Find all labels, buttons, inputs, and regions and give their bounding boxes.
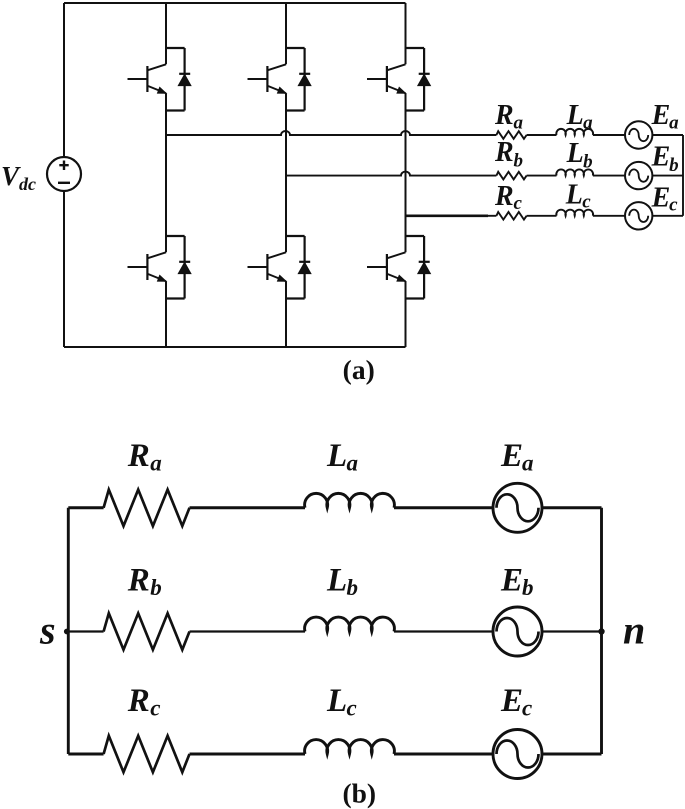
wire phase a left lead [68,506,103,509]
svg-text:b: b [522,575,534,600]
ac source Ec [625,202,652,229]
wire Lb to Eb [593,175,625,177]
svg-text:c: c [669,195,678,216]
svg-text:L: L [566,100,584,131]
ac source Eb [493,607,542,656]
IGBT transistor Q1 [128,64,167,93]
antiparallel diode D2 [166,236,191,299]
dc source Vdc [47,157,81,191]
wire phase c left lead [68,753,103,756]
svg-text:R: R [127,438,150,474]
wire Eb to right bus [542,630,602,632]
wire phase c to Rc [488,215,496,217]
svg-text:b: b [347,575,359,600]
wire La to Ea [394,506,493,509]
svg-text:E: E [500,683,523,719]
resistor Rc [496,212,526,220]
svg-text:V: V [1,161,21,191]
IGBT transistor Q6 [367,252,406,281]
svg-text:E: E [651,183,671,214]
svg-text:s: s [39,608,56,653]
IGBT transistor Q2 [128,252,167,281]
svg-text:E: E [651,142,671,173]
wire phase b output with crossover hop [286,172,496,176]
wire Ra to La [527,134,557,136]
svg-text:b: b [669,155,679,176]
svg-text:a: a [150,451,162,476]
inductor La [556,129,593,135]
wire Lb to Eb [394,630,493,632]
junction node n dot [598,628,604,634]
resistor Ra [104,490,190,526]
wire phase c output thick segment [406,214,489,217]
wire leg 1 vertical segments [165,3,167,347]
svg-text:n: n [623,608,645,653]
resistor Ra [496,131,526,139]
wire left bus s [67,508,70,754]
svg-text:b: b [583,152,593,173]
antiparallel diode D1 [166,48,191,111]
svg-text:R: R [494,137,514,168]
svg-text:L: L [565,180,583,211]
resistor Rc [104,736,190,772]
wire Ra to La [190,506,306,509]
wire Rc to Lc [527,215,557,217]
svg-text:L: L [326,438,347,474]
svg-text:c: c [347,696,357,721]
resistor Rb [104,613,190,649]
svg-text:L: L [326,683,347,719]
svg-text:(b): (b) [342,778,376,809]
wire bottom dc rail [64,346,406,348]
svg-text:c: c [582,192,591,213]
wire phase a output with crossover hops [166,131,496,135]
wire leg 2 vertical segments [285,3,287,347]
inductor Lb [556,169,593,175]
junction node s dot [64,629,70,635]
antiparallel diode D5 [406,48,431,111]
svg-text:E: E [651,100,671,131]
wire phase b left lead [68,630,103,632]
svg-text:b: b [514,151,524,172]
inductor Lb [305,617,395,631]
wire Eb to right bus [652,175,683,177]
svg-text:E: E [500,438,523,474]
wire left bus lower segment [63,191,65,347]
IGBT transistor Q3 [248,64,287,93]
svg-text:c: c [150,696,160,721]
wire right bus n [600,508,603,754]
svg-text:a: a [669,113,679,134]
ac source Ea [493,483,542,532]
svg-text:b: b [150,575,162,600]
IGBT transistor Q5 [367,64,406,93]
svg-text:a: a [522,451,534,476]
svg-text:a: a [514,113,524,134]
wire Ec to right bus [542,753,602,756]
svg-text:E: E [500,563,523,599]
wire right neutral bus [682,135,684,216]
antiparallel diode D4 [286,236,311,299]
ac source Ec [493,730,542,779]
antiparallel diode D6 [406,236,431,299]
wire Rb to Lb [527,175,557,177]
resistor Rb [496,172,526,180]
svg-text:L: L [566,138,584,169]
svg-text:R: R [494,100,514,131]
wire left bus upper segment [63,3,65,157]
inductor Lc [556,210,593,216]
wire Rc to Lc [190,753,306,756]
wire top dc rail [64,2,406,4]
svg-text:c: c [514,193,523,214]
wire Ec to right bus [652,215,683,217]
wire La to Ea [593,134,625,136]
ac source Ea [625,121,652,148]
antiparallel diode D3 [286,48,311,111]
wire Rb to Lb [190,630,306,632]
svg-text:(a): (a) [343,354,375,385]
wire leg 3 vertical segments [405,3,407,347]
svg-text:a: a [583,113,593,134]
ac source Eb [625,162,652,189]
inductor La [305,493,395,507]
wire Ea to right bus [542,506,602,509]
svg-text:c: c [522,696,532,721]
svg-text:dc: dc [19,174,36,194]
svg-text:R: R [127,563,150,599]
wire Ea to right bus [652,134,683,136]
svg-text:L: L [326,563,347,599]
svg-text:a: a [347,451,359,476]
wire Lc to Ec [593,215,625,217]
wire Lc to Ec [394,753,493,756]
inductor Lc [305,740,395,754]
svg-text:R: R [127,683,150,719]
svg-text:R: R [494,181,514,212]
IGBT transistor Q4 [248,252,287,281]
